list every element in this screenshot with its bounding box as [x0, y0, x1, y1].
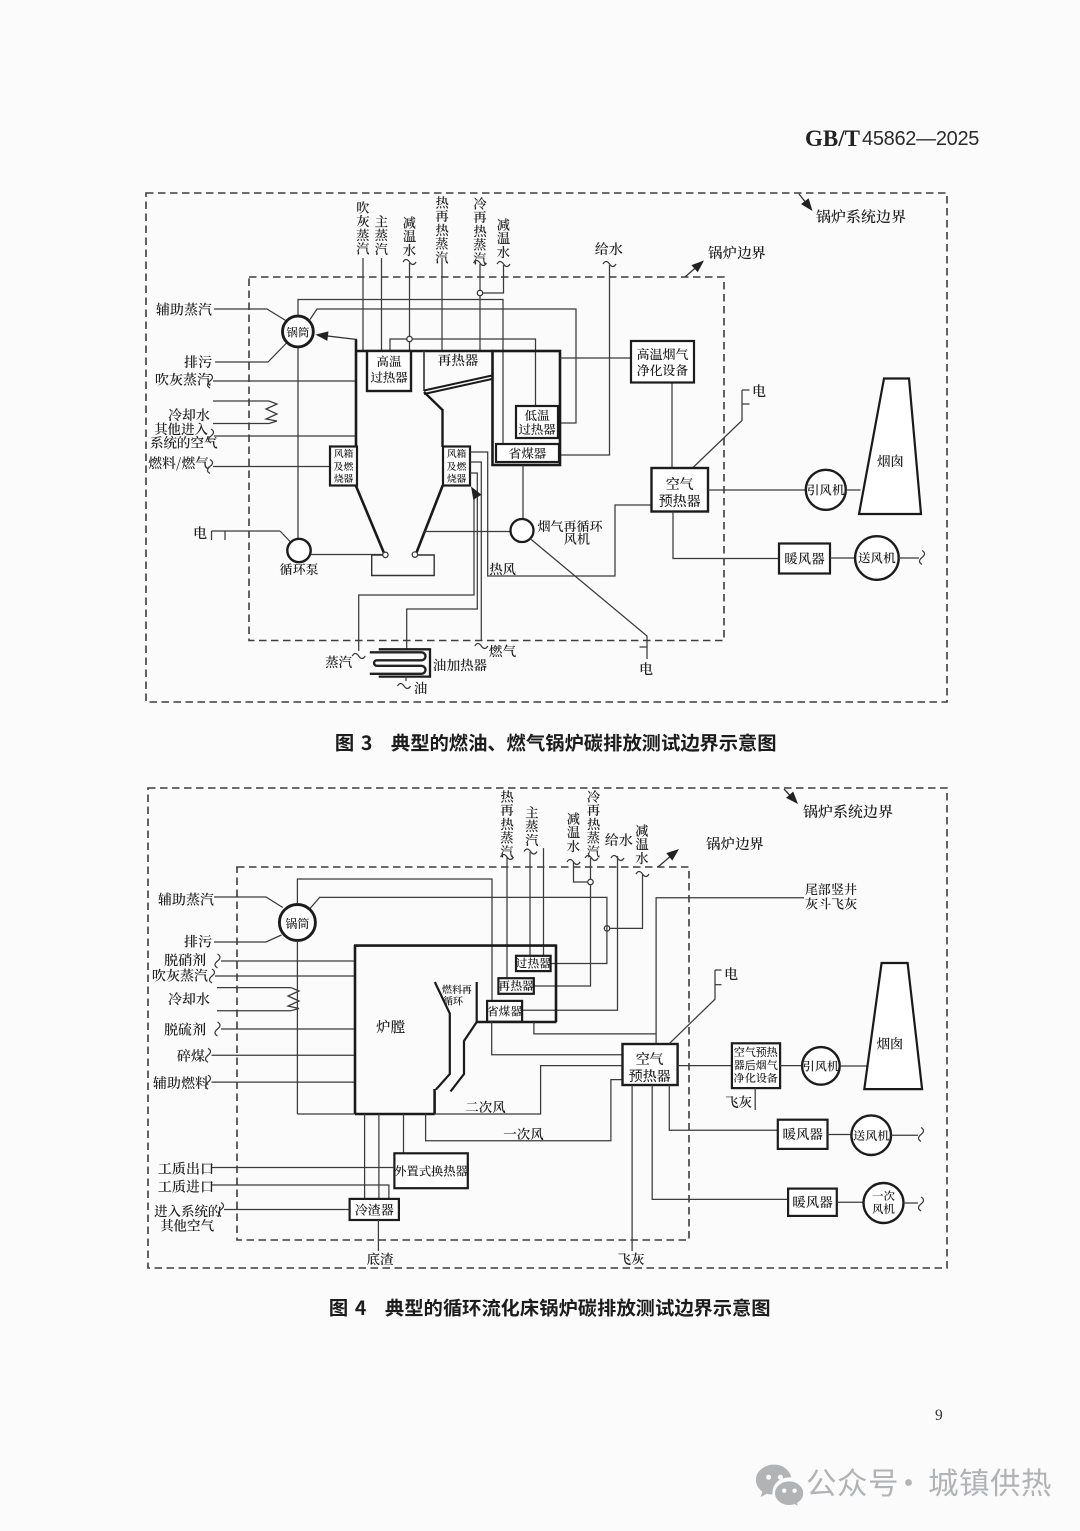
- svg-text:再热器: 再热器: [438, 349, 479, 369]
- svg-text:燃气: 燃气: [489, 640, 517, 660]
- svg-text:冷再热蒸汽: 冷再热蒸汽: [473, 193, 487, 267]
- svg-text:风箱: 风箱: [334, 446, 354, 460]
- svg-text:一次风: 一次风: [503, 1123, 544, 1143]
- svg-text:辅助燃料: 辅助燃料: [153, 1073, 209, 1093]
- svg-text:底渣: 底渣: [367, 1248, 394, 1268]
- svg-text:排污: 排污: [184, 932, 212, 952]
- svg-text:二次风: 二次风: [465, 1096, 506, 1116]
- svg-text:净化设备: 净化设备: [734, 1070, 778, 1086]
- svg-text:图 4: 图 4: [329, 1292, 367, 1321]
- svg-text:引风机: 引风机: [807, 481, 845, 499]
- svg-text:吹灰蒸汽: 吹灰蒸汽: [152, 966, 208, 986]
- svg-text:冷却水: 冷却水: [168, 989, 210, 1009]
- svg-text:省煤器: 省煤器: [487, 1002, 523, 1019]
- svg-text:烧器: 烧器: [334, 471, 354, 485]
- svg-text:GB/T: GB/T: [805, 126, 860, 151]
- svg-text:典型的循环流化床锅炉碳排放测试边界示意图: 典型的循环流化床锅炉碳排放测试边界示意图: [385, 1293, 771, 1321]
- svg-text:典型的燃油、燃气锅炉碳排放测试边界示意图: 典型的燃油、燃气锅炉碳排放测试边界示意图: [391, 728, 777, 756]
- svg-text:循环: 循环: [443, 993, 463, 1008]
- svg-text:净化设备: 净化设备: [636, 360, 688, 379]
- svg-text:炉膛: 炉膛: [376, 1016, 405, 1037]
- svg-text:脱硫剂: 脱硫剂: [164, 1020, 206, 1040]
- svg-text:外置式换热器: 外置式换热器: [394, 1162, 468, 1180]
- svg-text:风机: 风机: [564, 529, 591, 548]
- svg-text:给水: 给水: [605, 830, 633, 850]
- svg-text:热风: 热风: [489, 558, 517, 578]
- svg-text:热再热蒸汽: 热再热蒸汽: [435, 192, 449, 266]
- svg-text:电: 电: [639, 659, 653, 679]
- svg-text:省煤器: 省煤器: [509, 444, 547, 462]
- svg-text:锅筒: 锅筒: [285, 915, 310, 932]
- svg-text:风机: 风机: [872, 1201, 895, 1217]
- svg-text:过热器: 过热器: [370, 368, 408, 386]
- svg-text:送风机: 送风机: [853, 1127, 889, 1144]
- svg-text:热再热蒸汽: 热再热蒸汽: [500, 786, 514, 860]
- svg-text:减温水: 减温水: [566, 808, 581, 855]
- svg-text:系统的空气: 系统的空气: [150, 432, 218, 452]
- svg-text:冷渣器: 冷渣器: [355, 1200, 394, 1219]
- svg-text:碎煤: 碎煤: [177, 1046, 206, 1066]
- svg-text:减温水: 减温水: [634, 820, 649, 867]
- svg-text:辅助蒸汽: 辅助蒸汽: [158, 890, 214, 910]
- svg-text:油: 油: [414, 677, 428, 697]
- svg-text:工质出口: 工质出口: [158, 1159, 214, 1179]
- svg-text:过热器: 过热器: [518, 420, 556, 438]
- svg-text:减温水: 减温水: [402, 212, 417, 259]
- svg-text:冷再热蒸汽: 冷再热蒸汽: [587, 786, 601, 860]
- svg-text:烟囱: 烟囱: [877, 450, 904, 470]
- svg-text:送风机: 送风机: [858, 549, 896, 567]
- svg-text:暖风器: 暖风器: [782, 1123, 823, 1143]
- svg-text:给水: 给水: [595, 239, 623, 259]
- svg-text:公众号: 公众号: [806, 1459, 899, 1503]
- svg-text:锅炉系统边界: 锅炉系统边界: [803, 801, 893, 822]
- svg-text:其他空气: 其他空气: [160, 1215, 214, 1235]
- svg-text:主蒸汽: 主蒸汽: [525, 802, 539, 849]
- svg-text:电: 电: [752, 381, 766, 401]
- svg-text:吹灰蒸汽: 吹灰蒸汽: [356, 197, 370, 257]
- svg-text:飞灰: 飞灰: [618, 1248, 646, 1268]
- svg-text:暖风器: 暖风器: [784, 548, 825, 568]
- svg-text:燃料/燃气: 燃料/燃气: [148, 453, 209, 473]
- svg-text:城镇供热: 城镇供热: [928, 1459, 1052, 1503]
- svg-text:主蒸汽: 主蒸汽: [375, 211, 389, 258]
- svg-text:辅助蒸汽: 辅助蒸汽: [156, 300, 212, 320]
- svg-text:预热器: 预热器: [629, 1066, 671, 1086]
- svg-text:烧器: 烧器: [447, 471, 467, 485]
- svg-text:蒸汽: 蒸汽: [325, 651, 352, 671]
- svg-text:减温水: 减温水: [496, 214, 511, 261]
- svg-text:过热器: 过热器: [516, 954, 552, 971]
- svg-text:暖风器: 暖风器: [792, 1191, 833, 1211]
- svg-text:吹灰蒸汽: 吹灰蒸汽: [155, 370, 211, 390]
- svg-text:预热器: 预热器: [659, 491, 701, 511]
- svg-text:锅炉边界: 锅炉边界: [705, 833, 764, 854]
- svg-text:再热器: 再热器: [498, 977, 534, 994]
- svg-text:45862—2025: 45862—2025: [862, 128, 979, 150]
- svg-text:风箱: 风箱: [447, 446, 467, 460]
- svg-text:锅炉系统边界: 锅炉系统边界: [816, 206, 906, 227]
- svg-text:烟囱: 烟囱: [877, 1033, 904, 1053]
- svg-text:电: 电: [724, 964, 738, 984]
- svg-text:引风机: 引风机: [803, 1058, 839, 1075]
- svg-text:循环泵: 循环泵: [279, 559, 318, 578]
- svg-text:油加热器: 油加热器: [433, 654, 487, 674]
- svg-text:电: 电: [193, 523, 207, 543]
- svg-text:工质进口: 工质进口: [158, 1177, 214, 1197]
- svg-text:锅炉边界: 锅炉边界: [707, 242, 766, 263]
- svg-text:9: 9: [935, 1407, 943, 1424]
- svg-text:灰斗飞灰: 灰斗飞灰: [805, 894, 857, 913]
- svg-text:图 3: 图 3: [335, 727, 373, 756]
- svg-text:锅筒: 锅筒: [286, 325, 309, 341]
- svg-text:飞灰: 飞灰: [725, 1091, 753, 1111]
